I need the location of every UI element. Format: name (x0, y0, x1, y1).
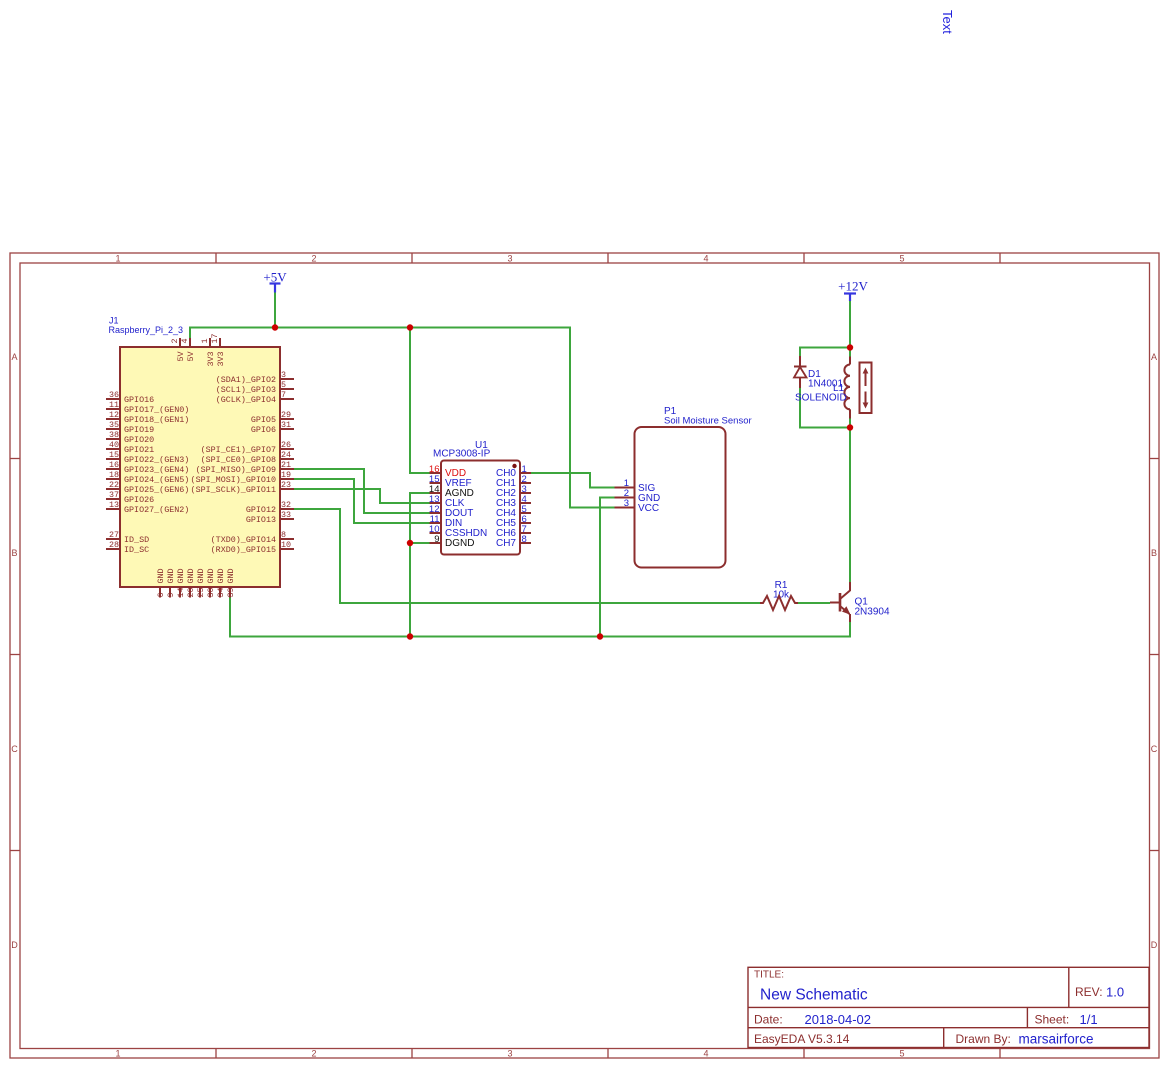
svg-text:GPIO27_(GEN2): GPIO27_(GEN2) (124, 505, 189, 515)
svg-text:3: 3 (507, 1049, 512, 1059)
power symbol +12V (838, 279, 868, 302)
J1 pin 32 GPIO12 (246, 500, 294, 515)
svg-text:23: 23 (281, 480, 291, 490)
J1 pin 25 GND (196, 568, 206, 597)
svg-text:GPIO25_(GEN6): GPIO25_(GEN6) (124, 485, 189, 495)
junction node (275,327.5) (272, 324, 278, 330)
svg-text:38: 38 (109, 430, 119, 440)
J1 pin 4 5V (180, 338, 196, 362)
U1 pin 14 AGND (429, 484, 474, 499)
svg-text:22: 22 (109, 480, 119, 490)
P1 pin 3 VCC (615, 498, 660, 514)
wire +5V top rail (190, 328, 615, 508)
svg-text:DGND: DGND (445, 538, 474, 549)
svg-text:3V3: 3V3 (216, 351, 226, 366)
wire P1 GND down (600, 498, 615, 637)
connector J1 Raspberry_Pi_2_3 (106, 316, 294, 598)
J1 pin 24 (SPI_CE0)_GPIO8 (201, 450, 294, 465)
J1 pin 3 (SDA1)_GPIO2 (216, 370, 294, 385)
connector P1 Soil Moisture Sensor (615, 406, 752, 568)
J1 pin 5 (SCL1)_GPIO3 (216, 380, 294, 395)
J1 pin 29 GPIO5 (251, 410, 294, 425)
svg-text:GPIO22_(GEN3): GPIO22_(GEN3) (124, 455, 189, 465)
svg-text:17: 17 (210, 333, 220, 343)
svg-text:16: 16 (109, 460, 119, 470)
svg-text:4: 4 (703, 1049, 708, 1059)
svg-text:40: 40 (109, 440, 119, 450)
svg-text:GPIO21: GPIO21 (124, 445, 154, 455)
U1 pin 1 CH0 (496, 464, 531, 479)
svg-text:35: 35 (109, 420, 119, 430)
J1 pin 6 GND (156, 568, 166, 597)
svg-text:14: 14 (176, 587, 186, 597)
U1 pin 15 VREF (429, 474, 472, 489)
svg-text:10k: 10k (773, 590, 790, 601)
svg-text:marsairforce: marsairforce (1019, 1032, 1094, 1047)
J1 pin 11 GPIO17_(GEN0) (106, 400, 189, 415)
svg-text:MCP3008-IP: MCP3008-IP (433, 449, 491, 460)
svg-text:24: 24 (281, 450, 291, 460)
wire 5V to U1 VDD (410, 328, 430, 474)
svg-text:19: 19 (281, 470, 291, 480)
svg-text:New Schematic: New Schematic (760, 987, 868, 1004)
J1 pin 27 ID_SD (106, 530, 149, 545)
svg-text:11: 11 (109, 400, 119, 410)
J1 pin 38 GPIO20 (106, 430, 154, 445)
J1 pin 36 GPIO16 (106, 390, 154, 405)
wire DGND branch (410, 542, 430, 544)
J1 pin 2 5V (170, 338, 186, 362)
svg-text:(GCLK)_GPIO4: (GCLK)_GPIO4 (216, 395, 276, 405)
svg-text:GPIO23_(GEN4): GPIO23_(GEN4) (124, 465, 189, 475)
svg-text:29: 29 (281, 410, 291, 420)
J1 pin 39 GND (226, 568, 236, 597)
junction node (850,347.5) (847, 344, 853, 350)
svg-text:VCC: VCC (638, 503, 659, 514)
wire +5V stem (274, 293, 276, 328)
svg-text:27: 27 (109, 530, 119, 540)
svg-text:GPIO16: GPIO16 (124, 395, 154, 405)
svg-text:+12V: +12V (838, 279, 868, 294)
svg-text:10: 10 (281, 540, 291, 550)
wire GPIO9-DOUT (294, 469, 430, 513)
wire L1 bottom link (849, 419, 851, 428)
svg-text:C: C (11, 744, 18, 754)
svg-text:8: 8 (281, 530, 286, 540)
svg-text:GND: GND (176, 568, 186, 583)
wire GPIO12 to R1 (294, 509, 760, 603)
sheet border frame (10, 253, 1159, 1058)
J1 pin 28 ID_SC (106, 540, 149, 555)
resistor R1 10k (760, 580, 798, 610)
svg-text:33: 33 (281, 510, 291, 520)
svg-text:GND: GND (196, 568, 206, 583)
J1 pin 8 (TXD0)_GPIO14 (211, 530, 294, 545)
power symbol +5V (263, 270, 287, 293)
J1 pin 35 GPIO19 (106, 420, 154, 435)
svg-text:A: A (1151, 352, 1157, 362)
svg-text:EasyEDA V5.3.14: EasyEDA V5.3.14 (754, 1032, 850, 1046)
svg-text:Raspberry_Pi_2_3: Raspberry_Pi_2_3 (109, 325, 184, 335)
svg-text:+5V: +5V (263, 270, 287, 285)
svg-text:GPIO5: GPIO5 (251, 415, 276, 425)
svg-text:2018-04-02: 2018-04-02 (805, 1012, 872, 1027)
J1 pin 23 (SPI_SCLK)_GPIO11 (191, 480, 294, 495)
J1 pin 21 (SPI_MISO)_GPIO9 (196, 460, 294, 475)
svg-text:(SPI_CE0)_GPIO8: (SPI_CE0)_GPIO8 (201, 455, 276, 465)
svg-text:28: 28 (109, 540, 119, 550)
junction node (410,636.5) (407, 633, 413, 639)
svg-text:9: 9 (166, 592, 176, 597)
svg-text:GND: GND (206, 568, 216, 583)
svg-text:15: 15 (109, 450, 119, 460)
svg-text:1: 1 (200, 338, 210, 343)
svg-text:3: 3 (624, 498, 629, 509)
J1 pin 13 GPIO27_(GEN2) (106, 500, 189, 515)
P1 pin 2 GND (615, 488, 661, 504)
J1 pin 34 GND (216, 568, 226, 597)
svg-text:GPIO20: GPIO20 (124, 435, 154, 445)
U1 pin 8 CH7 (496, 534, 531, 549)
svg-text:A: A (11, 352, 17, 362)
P1 pin 1 SIG (615, 478, 656, 494)
svg-text:GPIO19: GPIO19 (124, 425, 154, 435)
svg-text:5: 5 (281, 380, 286, 390)
svg-text:8: 8 (522, 534, 527, 545)
J1 pin 10 (RXD0)_GPIO15 (211, 540, 294, 555)
svg-text:2: 2 (311, 1049, 316, 1059)
U1 pin 16 VDD (429, 464, 466, 479)
svg-text:(TXD0)_GPIO14: (TXD0)_GPIO14 (211, 535, 276, 545)
J1 pin 40 GPIO21 (106, 440, 154, 455)
svg-text:GPIO13: GPIO13 (246, 515, 276, 525)
J1 pin 1 3V3 (200, 338, 216, 367)
J1 pin 18 GPIO24_(GEN5) (106, 470, 189, 485)
J1 pin 26 (SPI_CE1)_GPIO7 (201, 440, 294, 455)
svg-text:3: 3 (281, 370, 286, 380)
svg-text:Sheet:: Sheet: (1035, 1013, 1070, 1027)
J1 pin 15 GPIO22_(GEN3) (106, 450, 189, 465)
U1 pin 12 DOUT (429, 504, 473, 519)
wire GPIO11-CLK (294, 489, 430, 503)
wire ground rail (230, 598, 850, 637)
svg-text:4: 4 (180, 338, 190, 343)
U1 pin 5 CH4 (496, 504, 531, 519)
J1 pin 33 GPIO13 (246, 510, 294, 525)
svg-text:Soil Moisture Sensor: Soil Moisture Sensor (664, 416, 752, 427)
svg-text:GPIO6: GPIO6 (251, 425, 276, 435)
svg-text:5: 5 (899, 254, 904, 264)
svg-text:4: 4 (703, 254, 708, 264)
svg-text:9: 9 (434, 534, 439, 545)
svg-text:B: B (1151, 548, 1157, 558)
svg-text:26: 26 (281, 440, 291, 450)
J1 pin 12 GPIO18_(GEN1) (106, 410, 189, 425)
wire Q1 collector up (849, 428, 851, 583)
J1 pin 30 GND (206, 568, 216, 597)
svg-text:GND: GND (166, 568, 176, 583)
J1 pin 31 GPIO6 (251, 420, 294, 435)
U1 pin 4 CH3 (496, 494, 531, 509)
J1 pin 17 3V3 (210, 333, 226, 366)
wire L1 top link (849, 348, 851, 357)
svg-text:GPIO26: GPIO26 (124, 495, 154, 505)
svg-text:7: 7 (281, 390, 286, 400)
svg-text:(SPI_MOSI)_GPIO10: (SPI_MOSI)_GPIO10 (191, 475, 276, 485)
svg-text:6: 6 (156, 592, 166, 597)
J1 pin 16 GPIO23_(GEN4) (106, 460, 189, 475)
svg-text:34: 34 (216, 587, 226, 597)
U1 pin 7 CH6 (496, 524, 531, 539)
svg-text:(RXD0)_GPIO15: (RXD0)_GPIO15 (211, 545, 276, 555)
transistor Q1 2N3904 (NPN) (830, 582, 890, 622)
U1 pin 3 CH2 (496, 484, 531, 499)
svg-text:GPIO12: GPIO12 (246, 505, 276, 515)
svg-text:1: 1 (115, 1049, 120, 1059)
wire U1 CH0 to P1 SIG (531, 473, 615, 488)
inductor L1 SOLENOID (795, 357, 872, 419)
svg-text:B: B (11, 548, 17, 558)
svg-text:12: 12 (109, 410, 119, 420)
svg-text:37: 37 (109, 490, 119, 500)
svg-text:CH7: CH7 (496, 538, 516, 549)
svg-text:GND: GND (216, 568, 226, 583)
svg-text:GPIO24_(GEN5): GPIO24_(GEN5) (124, 475, 189, 485)
svg-text:32: 32 (281, 500, 291, 510)
svg-text:D: D (11, 940, 18, 950)
svg-text:ID_SD: ID_SD (124, 535, 149, 545)
J1 pin 14 GND (176, 568, 186, 597)
svg-text:Text: Text (940, 10, 955, 34)
svg-text:GND: GND (156, 568, 166, 583)
wire AGND branch (410, 493, 430, 637)
svg-text:3V3: 3V3 (206, 351, 216, 366)
IC U1 MCP3008-IP (429, 440, 531, 555)
junction node (410,543) (407, 540, 413, 546)
U1 pin 1 indicator dot (512, 464, 516, 468)
svg-text:5: 5 (899, 1049, 904, 1059)
junction node (410,327.5) (407, 324, 413, 330)
wire D1 top link (800, 348, 850, 357)
svg-text:1/1: 1/1 (1080, 1012, 1098, 1027)
J1 pin 22 GPIO25_(GEN6) (106, 480, 189, 495)
svg-text:3: 3 (507, 254, 512, 264)
L1 actuator box with arrows (860, 363, 872, 414)
svg-text:D: D (1151, 940, 1158, 950)
svg-text:18: 18 (109, 470, 119, 480)
svg-text:25: 25 (196, 587, 206, 597)
svg-text:2: 2 (311, 254, 316, 264)
U1 pin 10 CSSHDN (429, 524, 487, 539)
svg-text:5V: 5V (176, 351, 186, 361)
U1 pin 13 CLK (429, 494, 465, 509)
J1 pin 37 GPIO26 (106, 490, 154, 505)
svg-text:2: 2 (170, 338, 180, 343)
svg-text:(SDA1)_GPIO2: (SDA1)_GPIO2 (216, 375, 276, 385)
U1 pin 11 DIN (430, 514, 463, 529)
svg-text:13: 13 (109, 500, 119, 510)
U1 pin 9 DGND (430, 534, 475, 549)
svg-text:GPIO18_(GEN1): GPIO18_(GEN1) (124, 415, 189, 425)
svg-text:5V: 5V (186, 351, 196, 361)
svg-text:21: 21 (281, 460, 291, 470)
svg-text:39: 39 (226, 587, 236, 597)
wire +12V stem (849, 301, 851, 348)
svg-text:GPIO17_(GEN0): GPIO17_(GEN0) (124, 405, 189, 415)
wire GPIO10-DIN (294, 479, 430, 523)
svg-text:20: 20 (186, 587, 196, 597)
U1 pin 6 CH5 (496, 514, 531, 529)
svg-text:1.0: 1.0 (1106, 985, 1124, 1000)
svg-text:(SPI_CE1)_GPIO7: (SPI_CE1)_GPIO7 (201, 445, 276, 455)
svg-text:ID_SC: ID_SC (124, 545, 149, 555)
J1 pin 20 GND (186, 568, 196, 597)
junction node (600,636.5) (597, 633, 603, 639)
U1 pin 2 CH1 (496, 474, 531, 489)
svg-text:30: 30 (206, 587, 216, 597)
diode D1 1N4001 (794, 356, 843, 390)
J1 pin 7 (GCLK)_GPIO4 (216, 390, 294, 405)
svg-text:1: 1 (115, 254, 120, 264)
svg-text:(SPI_MISO)_GPIO9: (SPI_MISO)_GPIO9 (196, 465, 276, 475)
wire D1 bottom link (800, 388, 850, 428)
svg-text:GND: GND (186, 568, 196, 583)
svg-text:2N3904: 2N3904 (855, 607, 890, 618)
wire R1 to Q1 base (798, 602, 830, 604)
svg-text:SOLENOID: SOLENOID (795, 393, 847, 404)
svg-text:Date:: Date: (754, 1013, 783, 1027)
svg-text:Drawn By:: Drawn By: (956, 1032, 1011, 1046)
svg-text:J1: J1 (109, 316, 119, 326)
svg-text:C: C (1151, 744, 1158, 754)
svg-text:REV:: REV: (1075, 985, 1103, 999)
svg-text:(SCL1)_GPIO3: (SCL1)_GPIO3 (216, 385, 276, 395)
title block (748, 967, 1149, 1047)
J1 pin 19 (SPI_MOSI)_GPIO10 (191, 470, 294, 485)
svg-text:(SPI_SCLK)_GPIO11: (SPI_SCLK)_GPIO11 (191, 485, 276, 495)
svg-text:TITLE:: TITLE: (754, 970, 784, 981)
svg-text:36: 36 (109, 390, 119, 400)
svg-text:GND: GND (226, 568, 236, 583)
J1 pin 9 GND (166, 568, 176, 597)
junction node (850,427.5) (847, 424, 853, 430)
svg-text:31: 31 (281, 420, 291, 430)
